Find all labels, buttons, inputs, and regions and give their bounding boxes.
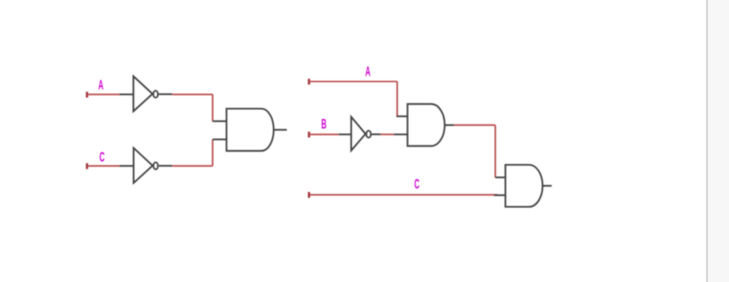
AND gate U6 body bbox=[505, 165, 542, 207]
port tick B bbox=[308, 132, 310, 138]
AND gate U2 body bbox=[227, 109, 274, 151]
wire U5 out (red) bbox=[381, 133, 394, 135]
wire corner up to AND lower input (red vertical) bbox=[212, 139, 214, 166]
inverter U3 input pin bbox=[120, 165, 134, 167]
svg-text:C: C bbox=[99, 150, 104, 165]
port tick C (left) bbox=[86, 163, 88, 169]
svg-text:C: C bbox=[414, 177, 419, 192]
inverter U3 bubble bbox=[153, 162, 158, 169]
AND gate U6 upper input pin bbox=[495, 176, 505, 178]
wire U1 out to AND (red horizontal) bbox=[172, 93, 212, 95]
AND gate U4 output pin bbox=[445, 124, 455, 126]
inverter U1 output pin bbox=[159, 93, 173, 95]
AND gate U4 upper input pin bbox=[396, 115, 407, 117]
AND gate U4 lower input pin bbox=[394, 133, 408, 135]
wire C (red long horizontal) bbox=[309, 194, 498, 196]
inverter U3 triangle bbox=[134, 148, 153, 183]
AND gate U2 upper input pin bbox=[213, 120, 227, 122]
right side panel background bbox=[708, 0, 729, 282]
wire corner down to AND2 upper input (red vertical) bbox=[494, 125, 496, 177]
wire corner down to AND upper input (red vertical) bbox=[212, 94, 214, 121]
AND gate U2 lower input pin bbox=[213, 138, 227, 140]
AND gate U4 body bbox=[408, 104, 445, 146]
inverter U1 input pin bbox=[120, 93, 134, 95]
right panel border line bbox=[706, 0, 708, 282]
port tick A (right) bbox=[308, 79, 310, 85]
AND gate U2 output pin bbox=[274, 129, 287, 131]
wire A input (red) bbox=[87, 93, 120, 95]
svg-text:A: A bbox=[98, 78, 103, 93]
port tick A (left) bbox=[86, 92, 88, 98]
wire U4 out (red horizontal) bbox=[454, 124, 495, 126]
inverter U1 triangle bbox=[133, 76, 152, 111]
wire C input (red) bbox=[87, 165, 120, 167]
svg-text:B: B bbox=[321, 117, 326, 132]
svg-text:A: A bbox=[365, 65, 370, 80]
inverter U5 bubble bbox=[366, 131, 371, 138]
inverter U5 triangle bbox=[351, 117, 365, 151]
wire A (red horizontal) bbox=[309, 81, 397, 83]
port tick C (right) bbox=[308, 192, 310, 198]
inverter U5 output pin bbox=[372, 133, 381, 135]
inverter U3 output pin bbox=[159, 165, 173, 167]
inverter U1 bubble bbox=[153, 91, 158, 98]
AND gate U6 output pin bbox=[543, 185, 552, 187]
AND gate U6 lower input pin bbox=[494, 194, 506, 196]
wire B input (red) bbox=[309, 133, 339, 135]
inverter U5 input pin bbox=[339, 133, 352, 135]
wire U3 out to AND (red horizontal) bbox=[172, 165, 212, 167]
wire A corner down to AND upper input (red vertical) bbox=[396, 82, 398, 117]
